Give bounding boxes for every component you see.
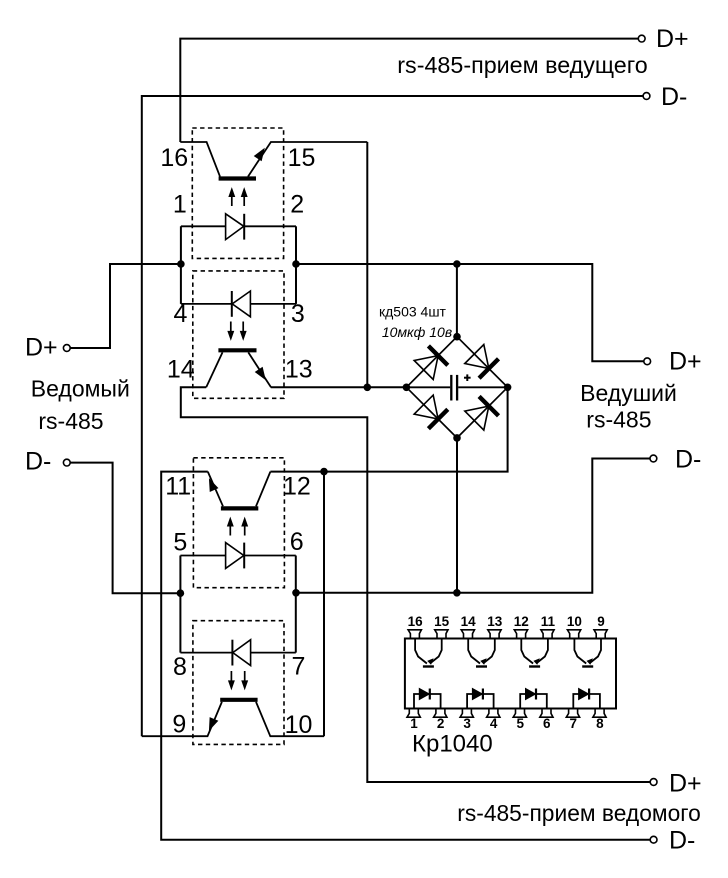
IC pin 3 tab: [460, 709, 473, 718]
svg-text:16: 16: [160, 144, 188, 172]
node pin10 junction: [320, 468, 328, 476]
wire right D- bus (pins 6/7, bridge bottom, right D- terminal): [296, 459, 650, 593]
IC transistor T2: [468, 639, 495, 667]
IC pin 10 tab: [567, 630, 580, 639]
IC pin 5 tab: [513, 709, 526, 718]
optocoupler U1.3 dashed box: [193, 458, 284, 588]
node bridge left: [403, 384, 411, 392]
svg-text:6: 6: [290, 528, 304, 556]
terminal right D-: [650, 455, 657, 462]
node bridge right: [504, 384, 512, 392]
svg-text:5: 5: [516, 716, 524, 731]
svg-text:12: 12: [514, 614, 529, 629]
svg-text:3: 3: [463, 716, 471, 731]
optocoupler U1.1 dashed box: [192, 128, 283, 258]
IC pin 12 tab: [514, 630, 527, 639]
wire bridge bottom drop: [456, 438, 458, 593]
bridge diode VD2 (top to right): [465, 345, 499, 379]
svg-text:11: 11: [541, 614, 556, 629]
IC diode D4: [573, 689, 600, 709]
wire pin 15 drop to pin13 bus: [366, 142, 368, 387]
transistor U1.2 phototransistor (pins 14,13): [206, 350, 271, 387]
node pins1-4 / left D+: [177, 260, 185, 268]
svg-text:12: 12: [283, 472, 311, 500]
terminal left D+: [63, 345, 70, 352]
LED D2 (pins 4,3): [181, 291, 296, 317]
IC pin 11 tab: [541, 630, 554, 639]
wire bridge top feed: [456, 264, 458, 337]
svg-text:D+: D+: [669, 348, 702, 376]
node pins5-8 / left D-: [177, 589, 185, 597]
light arrows U1.1: [229, 188, 247, 206]
capacitor C1 10uF: [406, 374, 507, 400]
wire left D- net (terminal to pins 5/8 bus): [70, 463, 180, 594]
svg-text:6: 6: [543, 716, 551, 731]
wire pin 14 route to bottom D+ terminal: [181, 387, 650, 782]
svg-text:rs-485: rs-485: [586, 406, 651, 432]
IC pin 16 tab: [408, 630, 421, 639]
IC pin 15 tab: [435, 630, 448, 639]
IC pin 14 tab: [461, 630, 474, 639]
wire top D- net (terminal to pin 9 emitter lead): [142, 96, 643, 736]
IC transistor T4: [574, 639, 601, 667]
svg-text:8: 8: [173, 653, 187, 681]
svg-text:D-: D-: [669, 827, 695, 855]
light arrows U1.4: [229, 671, 248, 689]
svg-text:15: 15: [288, 144, 316, 172]
svg-text:D+: D+: [25, 334, 58, 362]
node bridge top: [453, 333, 461, 341]
svg-text:D+: D+: [656, 25, 689, 53]
wire pin 10 riser: [323, 472, 325, 737]
svg-text:13: 13: [285, 355, 313, 383]
svg-text:Ведомый: Ведомый: [31, 376, 130, 402]
LED D1 (pins 1,2): [181, 214, 296, 240]
svg-text:7: 7: [570, 716, 578, 731]
svg-text:14: 14: [461, 614, 477, 629]
wire pins 6-7 vertical: [295, 556, 297, 653]
IC pin 1 tab: [407, 709, 420, 718]
IC diode D3: [520, 689, 547, 709]
node pins2-3 / D+ bus: [292, 260, 300, 268]
IC pin 2 tab: [434, 709, 447, 718]
terminal left D-: [63, 459, 70, 466]
IC pin 7 tab: [566, 709, 579, 718]
svg-text:13: 13: [487, 614, 503, 629]
IC diode D2: [467, 689, 494, 709]
svg-text:8: 8: [596, 716, 604, 731]
svg-text:D-: D-: [661, 83, 687, 111]
wire pins 1-4 vertical: [180, 226, 182, 304]
svg-text:rs-485-прием ведомого: rs-485-прием ведомого: [457, 800, 701, 826]
svg-text:10: 10: [285, 711, 313, 739]
svg-text:rs-485: rs-485: [38, 408, 103, 434]
node pin15/pin13 junction: [364, 384, 372, 392]
IC pin 6 tab: [540, 709, 553, 718]
svg-text:10мкф 10в: 10мкф 10в: [382, 324, 452, 340]
svg-text:11: 11: [165, 472, 191, 500]
bridge diode VD3 (left to bottom): [414, 395, 448, 429]
svg-text:1: 1: [410, 716, 418, 731]
svg-text:кд503 4шт: кд503 4шт: [379, 304, 447, 320]
svg-text:Кр1040: Кр1040: [412, 731, 493, 758]
IC pin 13 tab: [488, 630, 501, 639]
LED D3 (pins 5,6): [180, 543, 295, 569]
svg-text:16: 16: [408, 614, 424, 629]
diode bridge edges: [406, 337, 507, 438]
svg-text:7: 7: [291, 653, 305, 681]
IC pin 8 tab: [593, 709, 606, 718]
svg-text:3: 3: [291, 300, 305, 328]
optocoupler U1.2 dashed box: [193, 271, 284, 398]
wire pins 2-3 vertical: [295, 226, 297, 304]
optocoupler U1.4 dashed box: [193, 621, 284, 745]
transistor U1.4 phototransistor (pins 9,10): [142, 700, 324, 736]
svg-text:2: 2: [290, 190, 304, 218]
wire pin12 / pin10 / bridge right segment: [270, 387, 507, 471]
IC transistor T1: [415, 639, 442, 667]
svg-text:14: 14: [167, 355, 195, 383]
light arrows U1.3: [227, 518, 247, 536]
node bridge top feed: [453, 260, 461, 268]
wire pin13 to bridge left node: [271, 386, 407, 388]
svg-text:2: 2: [437, 716, 445, 731]
IC transistor T3: [521, 639, 548, 667]
svg-text:1: 1: [173, 190, 187, 218]
svg-text:4: 4: [173, 300, 187, 328]
svg-text:Ведуший: Ведуший: [580, 380, 677, 406]
terminal top D-: [643, 93, 650, 100]
IC pin 9 tab: [594, 630, 607, 639]
IC pin 4 tab: [487, 709, 500, 718]
node bridge bottom: [453, 434, 461, 442]
terminal bottom D+: [650, 779, 657, 786]
svg-text:10: 10: [567, 614, 582, 629]
terminal right D+: [644, 358, 651, 365]
svg-text:rs-485-прием ведущего: rs-485-прием ведущего: [397, 52, 647, 78]
svg-text:D-: D-: [25, 448, 51, 476]
svg-text:D+: D+: [669, 770, 702, 798]
terminal bottom D-: [650, 836, 657, 843]
svg-text:9: 9: [597, 614, 605, 629]
transistor U1.3 phototransistor (pins 11,12): [208, 472, 271, 509]
node bridge bottom / D- bus: [453, 589, 461, 597]
svg-text:5: 5: [173, 529, 187, 557]
IC diode D1: [414, 689, 441, 709]
svg-text:9: 9: [172, 711, 186, 739]
LED D4 (pins 8,7): [180, 640, 295, 666]
wire right D+ bus (pins 2/3, bridge top, right D+ terminal): [296, 264, 644, 361]
svg-text:15: 15: [434, 614, 450, 629]
svg-text:D-: D-: [675, 446, 701, 474]
svg-text:4: 4: [490, 716, 498, 731]
light arrows U1.2: [228, 322, 246, 340]
wire bottom D- net (pin 11 lead riser to terminal): [161, 472, 650, 840]
IC package Kp1040 body: [405, 639, 616, 709]
bridge diode VD1 (left to top): [414, 346, 448, 380]
transistor U1.1 phototransistor (pins 16,15): [180, 142, 367, 179]
node pins6-7 / D- bus: [292, 589, 300, 597]
wire left D+ net (terminal riser to pins 1/4 bus): [70, 264, 181, 348]
terminal top D+: [638, 35, 645, 42]
wire top D+ net (terminal to pin 16 collector): [180, 39, 638, 142]
wire pins 5-8 vertical: [179, 556, 181, 653]
bridge diode VD4 (bottom to right): [465, 396, 499, 430]
